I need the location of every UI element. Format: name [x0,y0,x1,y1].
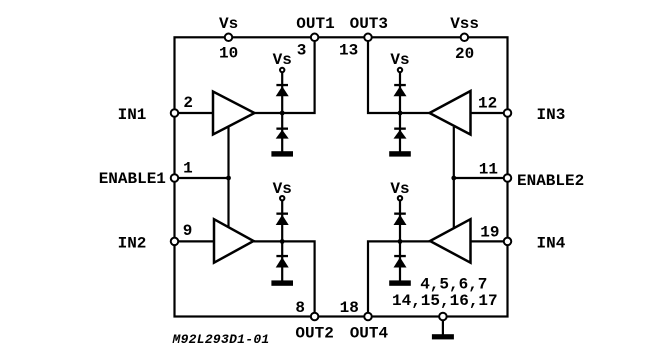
wire OUT2: amp C output to pin 8 [254,241,315,316]
op-amp U1C (driver 2) [214,219,254,263]
wire GND pin to ground [442,320,444,336]
ground stack D [389,280,411,285]
clamp diode stack B [389,51,411,157]
svg-text:OUT1: OUT1 [296,15,334,33]
pin 9 IN2 [171,238,179,246]
IC outline box U1 [175,37,508,316]
op-amp U1D (driver 4) [430,219,471,263]
svg-text:3: 3 [297,42,307,60]
clamp diode stack C [271,180,293,286]
svg-text:12: 12 [478,95,497,113]
wire ENABLE2 pin11 to junction [454,177,508,179]
svg-text:19: 19 [480,224,499,242]
diode C2 (to GND) [276,255,289,268]
svg-text:Vs: Vs [219,15,238,33]
svg-text:18: 18 [340,299,359,317]
svg-text:4,5,6,7: 4,5,6,7 [420,275,487,293]
svg-text:OUT2: OUT2 [295,324,333,342]
svg-text:8: 8 [295,299,305,317]
wire IN1 pin2 to amp A input [175,112,214,114]
svg-text:ENABLE1: ENABLE1 [99,170,166,188]
pin 8 OUT2 [311,313,319,321]
terminal Vs stack C [280,196,284,200]
diode A1 (to Vs) [276,84,289,96]
clamp diode stack A [271,51,293,157]
pin 20 Vss [461,34,469,42]
diode D1 (to Vs) [394,213,407,226]
ground main [432,334,454,339]
svg-text:9: 9 [183,222,193,240]
svg-text:11: 11 [479,160,498,178]
svg-text:IN1: IN1 [118,106,147,124]
pin 3 OUT1 [311,34,319,42]
ground stack B [389,151,411,156]
diode D2 (to GND) [394,255,407,268]
node junction enable1 [226,176,231,181]
svg-text:OUT3: OUT3 [350,15,388,33]
node OUT1 clamp [280,111,285,116]
diode B1 (to Vs) [394,84,407,96]
wire enable1 to amp C [227,178,229,228]
wire OUT1: amp A output to pin 3 [255,37,315,113]
clamp diode stack D [389,180,411,286]
terminal Vs stack B [398,68,402,72]
op-amp U1A (driver 1) [213,92,255,135]
svg-text:13: 13 [339,42,358,60]
wire IN3 pin12 to amp B input [471,112,508,114]
svg-text:IN3: IN3 [537,106,566,124]
node junction enable2 [451,176,456,181]
wire stack B [399,73,401,153]
wire stack A [281,73,283,153]
node OUT3 clamp [398,111,403,116]
pin 1 ENABLE1 [171,174,179,182]
ground stack C [271,280,293,285]
svg-text:ENABLE2: ENABLE2 [517,172,584,190]
pin GND [439,313,447,321]
op-amp U1B (driver 3) [430,91,471,135]
wire OUT3: amp B output to pin 13 [368,37,430,113]
svg-text:Vs: Vs [273,51,292,69]
svg-text:M92L293D1-01: M92L293D1-01 [172,332,270,347]
pin 11 ENABLE2 [504,174,512,182]
pin 10 Vs [225,34,233,42]
pin 13 OUT3 [364,34,372,42]
node OUT4 clamp [398,239,403,244]
wire stack D [399,201,401,282]
svg-text:1: 1 [183,160,193,178]
svg-text:IN2: IN2 [118,234,147,252]
pin 12 IN3 [504,109,512,117]
svg-text:2: 2 [183,94,193,112]
svg-text:IN4: IN4 [537,234,566,252]
wire OUT4: amp D output to pin 18 [368,241,430,316]
svg-text:20: 20 [455,45,474,63]
diode B2 (to GND) [394,128,407,139]
wire enable2 to amp B [453,127,455,178]
wire IN4 pin19 to amp D input [471,240,508,242]
wire IN2 pin9 to amp C input [175,240,215,242]
wire enable2 to amp D [453,178,455,228]
svg-text:Vs: Vs [390,51,409,69]
wire stack C [281,201,283,282]
diode A2 (to GND) [276,128,289,139]
pin 19 IN4 [504,238,512,246]
svg-text:OUT4: OUT4 [350,324,389,342]
node OUT2 clamp [280,239,285,244]
diode C1 (to Vs) [276,213,289,226]
svg-text:14,15,16,17: 14,15,16,17 [392,292,498,310]
svg-text:10: 10 [219,45,238,63]
pin 18 OUT4 [364,313,372,321]
pin 2 IN1 [171,109,179,117]
terminal Vs stack A [280,68,284,72]
terminal Vs stack D [398,196,402,200]
wire ENABLE1 pin1 to junction [175,177,229,179]
ground stack A [271,151,293,156]
svg-text:Vss: Vss [450,15,479,33]
wire enable1 to amp A [227,127,229,179]
